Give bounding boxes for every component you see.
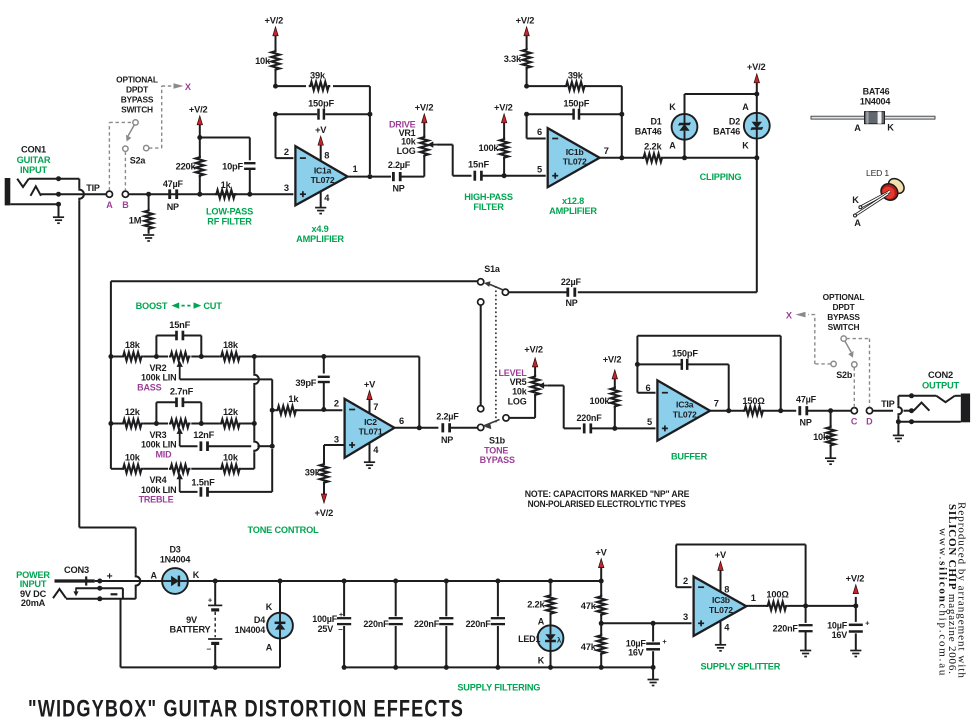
pictorial LED1	[886, 176, 907, 197]
svg-text:AMPLIFIER: AMPLIFIER	[296, 234, 344, 244]
resistor 39k (IC1a feedback)	[276, 85, 307, 87]
connector CON3 switched contact box	[66, 598, 136, 600]
wire IC3a pin6	[637, 392, 655, 394]
connector CON2 tip chevron line	[898, 395, 936, 397]
svg-text:DPDT: DPDT	[126, 85, 149, 95]
switch S2a nc circle	[144, 145, 149, 150]
svg-text:16V: 16V	[832, 630, 848, 640]
svg-text:A: A	[106, 200, 113, 210]
svg-text:IC2: IC2	[364, 417, 377, 427]
switch S2a dashed link B	[124, 152, 126, 191]
switch S2b nc circle	[831, 361, 836, 366]
svg-text:"WIDGYBOX" GUITAR DISTORTION E: "WIDGYBOX" GUITAR DISTORTION EFFECTS	[28, 696, 464, 723]
switch S2b lever	[845, 341, 851, 352]
capacitor 2.2uF NP (IC1a out)	[392, 172, 395, 181]
wire 15nF to IC1b pin5	[481, 175, 545, 177]
wire D to CON2 tip	[873, 410, 893, 412]
connector CON2 ring chevron	[914, 403, 930, 411]
pictorial axial diode BAT46/1N4004	[811, 116, 935, 119]
battery 9V	[214, 581, 216, 605]
wire S1a to tone input bus	[111, 280, 478, 282]
svg-text:K: K	[193, 570, 200, 580]
svg-text:VR4: VR4	[149, 475, 166, 485]
svg-text:100k LIN: 100k LIN	[141, 373, 176, 383]
wire S1b to VR5	[509, 417, 535, 419]
svg-text:NON-POLARISED ELECTROLYTIC TYP: NON-POLARISED ELECTROLYTIC TYPES	[528, 499, 686, 509]
capacitor 47uF NP	[168, 189, 171, 199]
svg-text:10k: 10k	[401, 137, 417, 147]
capacitor 1.5nF (treble wiper)	[180, 491, 198, 493]
capacitor 15nF (bass)	[155, 336, 157, 357]
svg-text:1: 1	[353, 164, 358, 174]
svg-text:2.2k: 2.2k	[527, 600, 545, 610]
svg-text:39k: 39k	[305, 468, 321, 478]
svg-text:10pF: 10pF	[222, 162, 243, 172]
wire S1a to 22uF	[509, 291, 568, 293]
svg-text:A: A	[854, 218, 861, 228]
svg-text:TONE: TONE	[484, 445, 508, 455]
capacitor 220nF filter 3	[497, 581, 499, 616]
svg-text:10µF: 10µF	[827, 620, 848, 630]
switch S2b dashed link C	[853, 367, 855, 407]
svg-text:3: 3	[334, 434, 339, 444]
svg-text:BATTERY: BATTERY	[170, 625, 211, 635]
diode D2 BAT46	[754, 92, 759, 97]
capacitor 220nF (splitter)	[805, 606, 807, 623]
capacitor 10uF 16V (splitter)	[855, 606, 857, 622]
svg-text:8: 8	[324, 151, 329, 161]
svg-text:A: A	[742, 102, 749, 112]
svg-text:FILTER: FILTER	[473, 202, 504, 212]
resistor 2.2k (LED)	[550, 581, 552, 595]
resistor 47k upper	[597, 595, 605, 617]
svg-text:2.2µF: 2.2µF	[388, 160, 411, 170]
svg-text:47µF: 47µF	[796, 395, 817, 405]
wire IC2 pin3	[324, 444, 345, 446]
wire signal B to amplifier	[129, 193, 294, 195]
connector CON1 input jack body	[5, 178, 11, 205]
resistor 10k (output load)	[830, 411, 832, 428]
svg-text:NP: NP	[392, 184, 404, 194]
ground 10k (output)	[825, 457, 836, 459]
potentiometer VR3 100k LIN	[169, 419, 191, 427]
svg-text:C: C	[851, 417, 858, 427]
svg-text:47µF: 47µF	[163, 179, 184, 189]
svg-text:CLIPPING: CLIPPING	[700, 172, 742, 182]
svg-text:K: K	[852, 195, 859, 205]
svg-text:3.3k: 3.3k	[504, 54, 522, 64]
ground 1M	[143, 234, 154, 236]
svg-text:7: 7	[373, 402, 378, 412]
svg-text:BOOST: BOOST	[136, 301, 168, 311]
svg-text:A: A	[266, 642, 273, 652]
supply +V/2 down (IC2)	[321, 494, 326, 503]
svg-text:2.2µF: 2.2µF	[436, 412, 459, 422]
wire IC2 output	[394, 427, 438, 429]
svg-text:A: A	[669, 141, 676, 151]
svg-text:TL072: TL072	[311, 175, 335, 185]
svg-text:NP: NP	[441, 435, 453, 445]
svg-text:D2: D2	[729, 116, 740, 126]
svg-text:www.siliconchip.com.au: www.siliconchip.com.au	[937, 528, 949, 677]
supply +V IC2 pin7	[369, 399, 371, 413]
svg-text:+V/2: +V/2	[516, 16, 535, 26]
supply +V/2 (100k IC1b)	[501, 114, 506, 123]
svg-text:15nF: 15nF	[169, 320, 190, 330]
ground CON2	[893, 434, 904, 436]
svg-text:220nF: 220nF	[466, 619, 492, 629]
capacitor 150pF (IC3a)	[637, 363, 681, 365]
capacitor 100uF 25V	[343, 581, 345, 616]
ground 220nF (splitter)	[800, 650, 811, 652]
capacitor 150pF (IC1b)	[524, 112, 529, 117]
svg-text:D4: D4	[254, 615, 265, 625]
ground 0V rail end	[652, 667, 654, 679]
svg-text:D1: D1	[650, 116, 661, 126]
svg-text:+V/2: +V/2	[315, 508, 334, 518]
svg-text:S2b: S2b	[836, 370, 853, 380]
svg-text:SUPPLY FILTERING: SUPPLY FILTERING	[457, 682, 540, 692]
svg-text:OPTIONAL: OPTIONAL	[823, 292, 865, 302]
op-amp IC1b	[548, 128, 600, 187]
svg-text:150Ω: 150Ω	[742, 396, 765, 406]
resistor 100k (IC3a bias)	[614, 406, 616, 428]
diode D4 1N4004	[279, 581, 281, 613]
resistor 18k right	[191, 356, 219, 358]
wire tone bus row1	[108, 354, 113, 359]
svg-text:150pF: 150pF	[672, 348, 698, 358]
svg-text:+V: +V	[364, 379, 376, 389]
wire IC1a pin2	[275, 114, 277, 158]
svg-text:BYPASS: BYPASS	[827, 312, 860, 322]
svg-text:16V: 16V	[628, 648, 644, 658]
svg-text:–: –	[206, 644, 211, 654]
svg-text:18k: 18k	[223, 340, 239, 350]
svg-text:RF FILTER: RF FILTER	[207, 217, 252, 227]
svg-text:x4.9: x4.9	[311, 224, 328, 234]
svg-text:BAT46: BAT46	[863, 87, 890, 97]
svg-text:K: K	[887, 122, 894, 132]
svg-text:1N4004: 1N4004	[235, 625, 266, 635]
resistor 100R	[766, 602, 788, 610]
svg-text:10k: 10k	[813, 432, 829, 442]
wire 220nF to IC3a pin5	[591, 427, 656, 429]
resistor 12k right	[191, 423, 219, 425]
svg-text:TL071: TL071	[359, 426, 383, 436]
svg-text:1k: 1k	[221, 180, 232, 190]
svg-text:A: A	[538, 616, 545, 626]
capacitor 12nF (mid wiper)	[180, 445, 198, 447]
svg-text:100k: 100k	[590, 396, 611, 406]
supply +V/2 (3.3k)	[524, 27, 529, 36]
svg-text:12k: 12k	[223, 407, 239, 417]
capacitor 10pF	[249, 138, 251, 161]
svg-text:7: 7	[714, 399, 719, 409]
svg-text:39k: 39k	[568, 71, 584, 81]
switch S2a pole circle	[133, 120, 138, 125]
svg-text:3: 3	[683, 612, 688, 622]
svg-text:22µF: 22µF	[561, 277, 582, 287]
svg-text:+V/2: +V/2	[494, 103, 513, 113]
op-amp IC3b	[694, 577, 747, 636]
svg-text:100k LIN: 100k LIN	[141, 485, 176, 495]
svg-text:CON1: CON1	[21, 145, 46, 155]
capacitor 2.2uF NP (IC2 out)	[441, 423, 444, 432]
wire CON1 switch line into CON3 (hop)	[136, 575, 141, 587]
svg-text:18k: 18k	[125, 340, 141, 350]
svg-text:BUFFER: BUFFER	[671, 451, 708, 461]
wire IC3a output	[710, 410, 744, 412]
wire bass wiper to bus B	[180, 378, 273, 380]
svg-text:+V: +V	[715, 550, 727, 560]
svg-text:2: 2	[683, 576, 688, 586]
svg-text:15nF: 15nF	[468, 159, 489, 169]
wire VR5 wiper to 220nF	[548, 385, 564, 387]
resistor 10k left (treble)	[111, 468, 122, 470]
svg-text:SWITCH: SWITCH	[828, 322, 860, 332]
svg-text:+V/2: +V/2	[265, 16, 284, 26]
svg-text:B: B	[122, 200, 129, 210]
svg-text:K: K	[742, 141, 749, 151]
wire +9V rail	[188, 580, 601, 582]
svg-text:D3: D3	[169, 545, 180, 555]
svg-text:+V/2: +V/2	[747, 62, 766, 72]
svg-text:6: 6	[646, 383, 651, 393]
svg-text:1N4004: 1N4004	[860, 97, 891, 107]
svg-text:1k: 1k	[288, 394, 299, 404]
resistor 3.3k (IC1b)	[526, 68, 528, 86]
svg-text:NOTE: CAPACITORS MARKED "NP" A: NOTE: CAPACITORS MARKED "NP" ARE	[525, 489, 690, 499]
svg-text:+V/2: +V/2	[415, 103, 434, 113]
svg-text:BAT46: BAT46	[635, 126, 662, 136]
svg-text:6: 6	[537, 127, 542, 137]
potentiometer VR2 100k LIN	[169, 352, 191, 360]
svg-text:100k LIN: 100k LIN	[141, 440, 176, 450]
supply +V/2 output	[855, 597, 857, 606]
svg-text:TONE CONTROL: TONE CONTROL	[248, 525, 320, 535]
svg-text:IC3a: IC3a	[676, 400, 694, 410]
resistor 2.2k (clipping)	[642, 154, 664, 162]
switch S2a contact B circle	[122, 191, 128, 197]
svg-text:NP: NP	[565, 298, 577, 308]
capacitor 220nF filter 2	[445, 581, 447, 616]
svg-text:39pF: 39pF	[295, 378, 316, 388]
svg-text:220nF: 220nF	[363, 619, 389, 629]
svg-text:OPTIONAL: OPTIONAL	[116, 75, 158, 85]
supply +V IC1a pin 8	[320, 144, 322, 161]
wire 2.2uF to VR1	[400, 176, 424, 178]
svg-text:3: 3	[284, 183, 289, 193]
switch S2b dashed link D	[846, 338, 869, 340]
svg-text:A: A	[854, 123, 861, 133]
svg-text:CON3: CON3	[64, 565, 89, 575]
switch S2a contact A circle	[106, 191, 112, 197]
connector CON3 DC jack pin	[55, 579, 95, 582]
capacitor 220nF filter 1	[395, 581, 397, 616]
svg-text:A: A	[150, 571, 157, 581]
svg-text:7: 7	[604, 146, 609, 156]
potentiometer VR5 10k LOG	[531, 375, 539, 397]
svg-text:BYPASS: BYPASS	[480, 455, 515, 465]
ground 10uF (splitter)	[850, 650, 861, 652]
svg-text:39k: 39k	[310, 71, 326, 81]
capacitor 220nF (IC3a in)	[583, 423, 586, 433]
svg-text:6: 6	[399, 416, 404, 426]
svg-text:2.7nF: 2.7nF	[170, 387, 194, 397]
svg-text:100µF: 100µF	[312, 614, 337, 624]
switch S1b	[478, 424, 484, 430]
svg-text:CUT: CUT	[203, 301, 222, 311]
supply +V/2 (VR5)	[534, 366, 536, 377]
svg-text:INPUT: INPUT	[20, 165, 47, 175]
resistor 12k left	[111, 423, 122, 425]
capacitor 15nF (high-pass)	[473, 171, 476, 181]
wire clipping output down to S1a	[756, 158, 758, 292]
resistor 220k	[199, 175, 201, 194]
connector CON2 output jack body	[961, 394, 970, 423]
op-amp IC1a	[295, 146, 347, 205]
led LED1	[538, 625, 564, 651]
potentiometer VR1 10k LOG	[420, 136, 428, 158]
resistor 18k left	[111, 356, 122, 358]
wire CON1 tip down to power switch (with hop)	[78, 179, 80, 188]
svg-text:IC3b: IC3b	[712, 595, 730, 605]
svg-text:47k: 47k	[581, 601, 597, 611]
resistor 150R (output)	[743, 407, 765, 415]
switch S2a dashed link A	[108, 122, 110, 190]
svg-text:K: K	[538, 655, 545, 665]
ground IC2 pin4	[369, 443, 371, 462]
svg-text:5: 5	[647, 417, 652, 427]
svg-text:TL072: TL072	[563, 156, 587, 166]
switch contact C	[851, 408, 857, 414]
resistor 1k (RF filter)	[215, 190, 237, 198]
svg-text:220nF: 220nF	[773, 623, 799, 633]
resistor 47k lower	[600, 623, 602, 635]
svg-text:1: 1	[751, 593, 756, 603]
svg-text:S2a: S2a	[130, 156, 147, 166]
svg-text:20mA: 20mA	[21, 598, 46, 608]
wire IC1a output	[348, 176, 391, 178]
resistor 10k (IC1a bias)	[275, 70, 277, 87]
svg-text:9V: 9V	[186, 615, 198, 625]
svg-text:12nF: 12nF	[193, 430, 214, 440]
svg-text:2: 2	[284, 147, 289, 157]
connector CON3 barrel chevron	[53, 589, 66, 598]
switch S2a throw circle	[123, 146, 128, 151]
svg-text:10k: 10k	[255, 56, 271, 66]
wire tone right bus (line A)	[253, 357, 255, 374]
svg-text:LED 1: LED 1	[866, 168, 889, 178]
svg-text:25V: 25V	[318, 624, 334, 634]
capacitor 22uF NP	[566, 288, 569, 297]
svg-text:BASS: BASS	[137, 382, 161, 392]
svg-text:DPDT: DPDT	[833, 302, 856, 312]
svg-text:K: K	[669, 102, 676, 112]
svg-text:NP: NP	[167, 202, 179, 212]
svg-text:1.5nF: 1.5nF	[191, 477, 215, 487]
resistor 39k (IC2)	[320, 463, 328, 485]
resistor 1M	[148, 194, 150, 211]
svg-text:2: 2	[334, 398, 339, 408]
svg-text:MID: MID	[155, 449, 172, 459]
wire tone wiper bus (line B)	[271, 410, 273, 446]
svg-text:47k: 47k	[581, 642, 597, 652]
resistor 10k right (treble)	[191, 468, 219, 470]
svg-text:LOW-PASS: LOW-PASS	[206, 207, 253, 217]
wire IC1b output	[600, 157, 644, 159]
wire 0V rail right	[344, 666, 653, 668]
wire 47uF to switch C	[807, 410, 851, 412]
potentiometer VR4 100k LIN	[169, 465, 191, 473]
svg-text:TL072: TL072	[673, 409, 697, 419]
wire tone bus row2	[108, 421, 113, 426]
diode D1 BAT46	[684, 140, 686, 158]
connector CON1 tip contact chevron	[17, 179, 29, 187]
svg-text:OUTPUT: OUTPUT	[922, 380, 960, 390]
resistor 39k (IC1b feedback)	[527, 85, 566, 87]
svg-text:TL072: TL072	[709, 605, 733, 615]
svg-text:INPUT: INPUT	[20, 579, 47, 589]
svg-text:x12.8: x12.8	[562, 196, 584, 206]
capacitor 10uF 16V (divider)	[652, 623, 654, 641]
capacitor 150pF (IC1a)	[275, 113, 277, 115]
wire CON3 + to D3	[97, 579, 102, 584]
svg-text:TREBLE: TREBLE	[139, 495, 174, 505]
svg-text:1M: 1M	[129, 216, 142, 226]
svg-text:SUPPLY SPLITTER: SUPPLY SPLITTER	[700, 661, 780, 671]
wire IC3b pin2 feedback	[676, 586, 691, 588]
switch S1 mechanical dotted link	[495, 287, 497, 424]
supply +V arrow (rail)	[600, 567, 602, 581]
ground CON1 sleeve	[53, 216, 64, 218]
svg-text:GUITAR: GUITAR	[17, 155, 51, 165]
wire IC3a feedback top loop	[636, 336, 638, 365]
svg-text:220nF: 220nF	[414, 619, 440, 629]
supply +V/2 (clipping)	[756, 82, 758, 94]
svg-text:5: 5	[537, 164, 542, 174]
wire IC3b output	[746, 605, 767, 607]
op-amp IC2	[345, 399, 395, 458]
svg-text:SWITCH: SWITCH	[121, 105, 153, 115]
svg-text:NP: NP	[800, 418, 812, 428]
svg-text:+V: +V	[595, 547, 607, 557]
svg-text:12k: 12k	[125, 407, 141, 417]
wire CON1 tip to corner	[29, 178, 80, 180]
svg-text:LOG: LOG	[397, 146, 416, 156]
svg-text:VR3: VR3	[149, 430, 166, 440]
svg-text:TIP: TIP	[881, 399, 895, 409]
wire 220k top to 10pF	[200, 137, 250, 139]
svg-text:100k: 100k	[479, 143, 500, 153]
ground IC1a pin 4	[320, 192, 322, 208]
svg-text:1N4004: 1N4004	[160, 554, 191, 564]
svg-text:150pF: 150pF	[308, 99, 334, 109]
svg-text:+V/2: +V/2	[603, 355, 622, 365]
svg-text:2.2k: 2.2k	[644, 141, 662, 151]
switch S2b pole circle	[841, 336, 846, 341]
supply +V/2 (220k)	[199, 124, 201, 138]
svg-text:8: 8	[724, 584, 729, 594]
switch contact D	[866, 408, 872, 414]
switch S1a	[502, 289, 508, 295]
svg-text:S1a: S1a	[484, 264, 501, 274]
svg-text:+V/2: +V/2	[189, 105, 208, 115]
wire IC1b pin6	[526, 114, 528, 138]
connector CON1 ring contact chevron	[31, 186, 42, 196]
wire 2.2uF to S1b	[450, 427, 478, 429]
svg-text:150pF: 150pF	[563, 99, 589, 109]
